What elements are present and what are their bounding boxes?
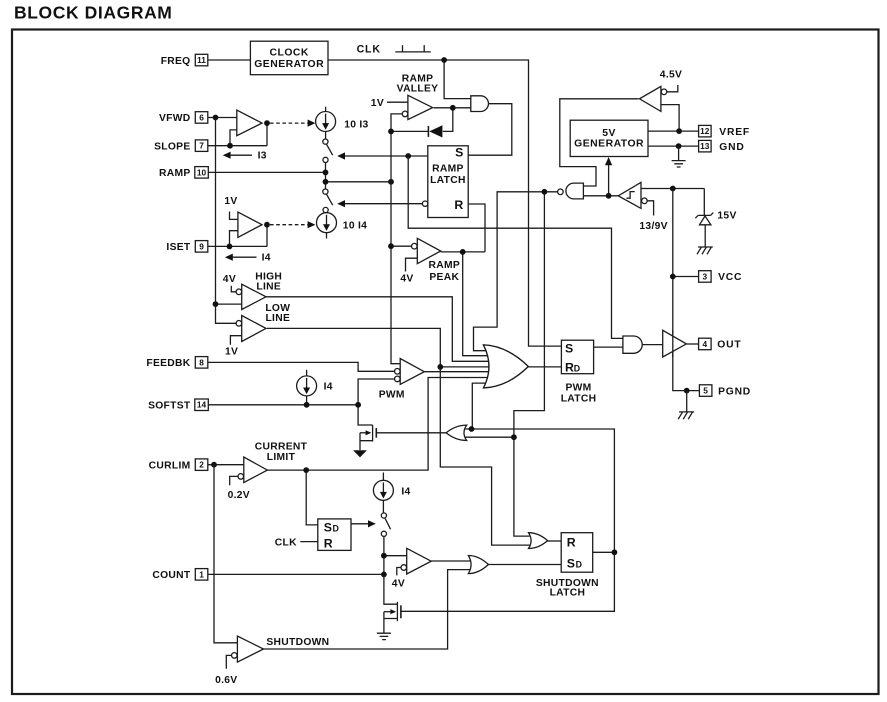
wire PWM latch output to AND U3 <box>594 346 625 348</box>
box 5V generator <box>570 120 648 156</box>
switch S1 lower contact <box>323 157 328 162</box>
svg-text:3: 3 <box>702 271 707 281</box>
comparator HIGH LINE <box>242 284 266 309</box>
svg-text:D: D <box>333 524 339 534</box>
node NAND output junction <box>542 189 548 195</box>
svg-text:14: 14 <box>197 400 207 410</box>
wire clock generator output CLK net <box>328 60 561 346</box>
node PGND junction <box>684 388 690 394</box>
wire OR-left top input row junction to x614 rail <box>400 429 614 611</box>
wire 4.5V lower input to VREF <box>661 105 679 132</box>
wire CLK branch down to AND gate U2 top input <box>444 60 472 99</box>
OR gate big (7 inputs) <box>484 345 529 388</box>
pin box 14 SOFTST <box>195 399 209 411</box>
node VCC junction <box>670 274 676 280</box>
current source I4 upper <box>306 370 308 405</box>
latch PWM LATCH <box>561 340 593 374</box>
comparator 4.5V (points left) <box>640 86 661 111</box>
svg-text:CURRENT: CURRENT <box>255 442 308 453</box>
wire VCC rail down to PGND row <box>673 189 700 391</box>
node CURLIM output junction <box>303 467 309 473</box>
node COUNT junction <box>381 572 387 578</box>
box SD/R (one-shot) <box>318 519 351 551</box>
arrow I4 pointing left <box>228 256 256 258</box>
wire x408 rail to output AND gate U3 top input <box>408 156 624 338</box>
wire R-OR gate output to shutdown latch R <box>546 540 561 542</box>
pin box 8 FEEDBK <box>195 357 208 369</box>
wire 13/9V top input row to VCC rail and zener <box>641 188 704 190</box>
switch S3 blade <box>385 518 391 529</box>
node ISET feedback junction <box>227 244 233 250</box>
pin box 5 PGND <box>699 385 712 397</box>
comparator 13/9V (points left, hysteresis) <box>618 182 641 208</box>
pin box 13 GND <box>699 140 712 152</box>
node VFWD junction <box>213 115 219 121</box>
svg-text:S: S <box>567 556 575 570</box>
svg-text:SHUTDOWN: SHUTDOWN <box>266 637 329 648</box>
pin box 11 FREQ <box>195 54 208 66</box>
diode D1 <box>429 125 442 137</box>
node CLK junction <box>441 57 447 63</box>
wire 1V hook to ISET amp plus input <box>230 212 238 220</box>
wire 4V hook to HIGH LINE bubble <box>231 286 236 292</box>
pin box 3 VCC <box>699 271 712 283</box>
wire AND U2 output to RAMP latch S input <box>468 104 512 156</box>
svg-text:SLOPE: SLOPE <box>154 141 190 152</box>
svg-text:RAMP: RAMP <box>159 168 191 179</box>
wire 1V to RAMP VALLEY plus input <box>387 101 408 103</box>
comparator CURRENT LIMIT <box>244 457 267 483</box>
svg-text:I4: I4 <box>401 486 410 497</box>
svg-text:8: 8 <box>199 357 204 367</box>
wire 4V hook to COUNT comparator bubble <box>397 568 401 576</box>
OR gate big (redraw over stubs) <box>484 345 529 388</box>
current source 10I4 <box>317 213 337 233</box>
wire VFWD pin to amp <box>208 117 237 119</box>
svg-text:VCC: VCC <box>718 272 742 283</box>
node OR-left top input junction <box>469 426 475 432</box>
wire VFWD vertical rail down to LOW LINE <box>216 118 237 324</box>
svg-text:PWM: PWM <box>565 383 591 394</box>
arrow into 5V generator <box>608 162 610 196</box>
wire x544 rail from NAND output down to OR-left and R-OR gates <box>514 192 545 536</box>
wire VCC pin row <box>673 276 699 278</box>
svg-text:1V: 1V <box>371 98 384 109</box>
wire SHUTDOWN comparator output chain to SD-OR <box>264 570 471 649</box>
comparator RAMP PEAK <box>417 238 440 263</box>
svg-text:D: D <box>576 559 582 569</box>
wire OR-left bottom input branch <box>466 436 514 438</box>
node RAMP row2 <box>323 179 329 185</box>
node x391 rail at RAMP row <box>388 179 394 185</box>
svg-text:4V: 4V <box>392 578 405 589</box>
clock generator box <box>250 41 328 74</box>
pin box 9 ISET <box>195 241 208 253</box>
NAND gate U4 (points left, output bubble) <box>566 183 584 199</box>
arrow I3 pointing left <box>226 154 252 156</box>
wire HIGH LINE output to big OR input3 <box>266 297 497 362</box>
wire driver output to OUT pin <box>686 343 698 345</box>
svg-text:ISET: ISET <box>166 242 190 253</box>
svg-text:6: 6 <box>199 112 204 122</box>
pin box 2 CURLIM <box>195 459 208 471</box>
ground PGND (chassis) <box>678 391 694 420</box>
pin box 6 VFWD <box>195 112 208 124</box>
wire 1V hook to LOW LINE plus input <box>230 336 241 345</box>
pin box 10 RAMP <box>195 167 209 179</box>
wire VCC rail over driver <box>672 330 674 357</box>
svg-text:R: R <box>567 535 576 549</box>
wire 4V comparator output to SD-OR gate <box>431 560 470 562</box>
wire LOW LINE output chain to big OR input4 and shutdown R gate <box>267 328 530 545</box>
MOSFET Q2 <box>384 602 398 633</box>
wire S2 lower contact to current source 10I4 <box>325 212 327 215</box>
svg-text:5V: 5V <box>602 128 616 139</box>
node OR-left bottom input junction <box>511 434 517 440</box>
wire RAMP PEAK output down to big OR input2 <box>463 252 497 356</box>
wire 0.6V hook to SHUTDOWN bubble <box>226 655 231 668</box>
svg-text:FEEDBK: FEEDBK <box>146 358 190 369</box>
wire dashed VFWD amp to current source 10I3 <box>270 122 311 124</box>
wire AND U3 output to driver <box>642 344 663 346</box>
pin box 4 OUT <box>699 338 712 350</box>
OR gate left-pointing (Q1 gate driver) <box>446 425 467 440</box>
node VFWD amp output <box>264 120 270 126</box>
svg-text:OUT: OUT <box>717 340 741 351</box>
wire big OR input7 stub down to junction <box>472 383 497 429</box>
svg-text:RAMP: RAMP <box>429 260 461 271</box>
svg-text:13/9V: 13/9V <box>639 221 667 232</box>
wire CURLIM output chain up to big OR input6 <box>267 378 497 471</box>
svg-text:PGND: PGND <box>718 386 751 397</box>
svg-text:I4: I4 <box>262 253 271 264</box>
node RAMP PEAK output <box>460 249 466 255</box>
wire big OR output to PWM latch RD <box>528 366 561 368</box>
wire SOFTST node down to MOSFET Q1 drain <box>358 405 373 425</box>
svg-text:7: 7 <box>199 141 204 151</box>
wire x391 rail (RAMP valley bubble down to PWM comparator) <box>391 114 402 364</box>
svg-text:5: 5 <box>703 386 708 396</box>
svg-text:FREQ: FREQ <box>161 56 191 67</box>
wire S1 lower contact to RAMP node <box>325 163 327 190</box>
node VFWD rail at HIGH LINE <box>213 301 219 307</box>
svg-text:COUNT: COUNT <box>152 570 191 581</box>
node CURLIM pin junction <box>211 462 217 468</box>
AND gate U2 (clock / ramp valley) <box>471 96 489 112</box>
svg-text:CLOCK: CLOCK <box>269 47 308 58</box>
svg-text:S: S <box>455 146 463 160</box>
svg-text:RAMP: RAMP <box>432 164 464 175</box>
svg-text:4: 4 <box>702 339 707 349</box>
wire FEEDBK pin to PWM comparator bubble1 <box>207 362 394 371</box>
node I4 at SOFTST row <box>304 402 310 408</box>
node VREF junction <box>676 128 682 134</box>
comparator SHUTDOWN <box>237 636 263 662</box>
node ISET amp output <box>264 222 270 228</box>
OR gate R (shutdown latch reset) <box>529 533 548 549</box>
wire 0.2V hook to CURLIM bubble <box>230 476 238 485</box>
svg-text:1V: 1V <box>224 196 237 207</box>
svg-text:CLK: CLK <box>357 44 381 56</box>
wire 4V comparator plus input row <box>384 555 408 557</box>
wire GND row <box>648 145 699 147</box>
op-amp VFWD buffer <box>237 110 262 136</box>
switch S2 lower contact <box>323 207 328 212</box>
svg-text:GND: GND <box>719 142 744 153</box>
clock waveform symbol <box>395 45 431 52</box>
svg-text:13: 13 <box>700 141 710 151</box>
node comparator output / diode branch <box>450 105 456 111</box>
svg-text:LATCH: LATCH <box>561 394 597 405</box>
svg-text:0.2V: 0.2V <box>228 490 250 501</box>
pin box 1 COUNT <box>195 569 208 581</box>
switch S3 upper contact <box>381 513 386 518</box>
svg-text:PEAK: PEAK <box>429 272 459 283</box>
latch RAMP LATCH <box>428 146 468 218</box>
svg-text:D: D <box>574 363 580 373</box>
comparator 4V (count) <box>407 548 432 574</box>
svg-text:CURLIM: CURLIM <box>149 460 191 471</box>
wire RAMP PEAK bubble to x391 rail <box>391 245 411 247</box>
wire 4.5V bubble reference hook <box>667 85 678 92</box>
svg-text:R: R <box>324 536 333 550</box>
switch S2 blade <box>326 194 332 205</box>
arrow SD box to switch S3 <box>351 523 371 525</box>
wire COUNT pin row <box>208 573 384 575</box>
svg-text:10 I3: 10 I3 <box>344 119 368 130</box>
switch S1 upper contact <box>323 139 328 144</box>
wire RAMP pin row <box>209 171 326 173</box>
wire NAND bottom input row from 13/9V comparator <box>583 195 618 197</box>
svg-text:4.5V: 4.5V <box>660 70 682 81</box>
svg-text:LATCH: LATCH <box>550 588 586 599</box>
svg-text:S: S <box>565 341 573 355</box>
switch S3 lower contact <box>381 531 386 536</box>
node 13/9V output junction <box>606 193 612 199</box>
wire RAMP latch left S row with arrow to switch S1 <box>345 155 428 157</box>
svg-text:VREF: VREF <box>719 127 750 138</box>
node SOFTST main junction <box>355 402 361 408</box>
svg-text:9: 9 <box>199 241 204 251</box>
wire CURLIM branch down to SD box <box>306 470 318 525</box>
svg-text:PWM: PWM <box>379 389 405 400</box>
node x391 rail at diode row <box>388 129 394 135</box>
svg-text:R: R <box>565 360 574 374</box>
wire VREF row <box>648 130 699 132</box>
svg-text:10 I4: 10 I4 <box>343 220 367 231</box>
ground Q1 source (triangle) <box>353 450 367 457</box>
node VCC rail top <box>670 186 676 192</box>
wire SOFTST pin row <box>207 404 358 406</box>
wire RAMP node to x391 rail <box>326 181 392 183</box>
wire ISET pin row and amp feedback <box>207 225 267 247</box>
svg-text:S: S <box>324 521 332 535</box>
comparator LOW LINE <box>242 316 266 342</box>
wire big OR input4 stub <box>440 366 497 368</box>
op-amp ISET buffer <box>238 212 262 237</box>
wire 13/9V bubble hook <box>647 201 653 216</box>
node 4V comparator input junction <box>381 553 387 559</box>
switch S2 upper contact <box>323 189 328 194</box>
AND gate U3 (output) <box>623 336 642 353</box>
svg-text:VFWD: VFWD <box>159 113 191 124</box>
svg-text:LATCH: LATCH <box>430 175 466 186</box>
wire 4V hook to RAMP PEAK plus input <box>406 258 418 271</box>
current source 10I3 <box>325 107 327 139</box>
wire SOFTST node up to PWM comparator bubble2 <box>358 379 395 405</box>
node LOW LINE line at OR input4 <box>437 364 443 370</box>
svg-text:BLOCK DIAGRAM: BLOCK DIAGRAM <box>14 3 172 23</box>
comparator PWM <box>400 359 424 385</box>
pin box 12 VREF <box>699 125 712 136</box>
svg-text:GENERATOR: GENERATOR <box>254 59 324 70</box>
svg-text:LINE: LINE <box>265 313 290 324</box>
node x391 rail at RAMP PEAK <box>388 243 394 249</box>
OR gate SD (shutdown latch set) <box>468 556 488 574</box>
comparator RAMP VALLEY <box>408 95 433 119</box>
ground GND pin (3-bar) <box>672 146 686 167</box>
svg-text:CLK: CLK <box>275 538 297 549</box>
wire SD-OR gate output to shutdown latch SD <box>487 564 561 566</box>
svg-text:LINE: LINE <box>256 282 281 293</box>
zener diode 15V <box>695 189 713 219</box>
node S-left row junction <box>405 153 411 159</box>
node shutdown latch output <box>612 549 618 555</box>
wire diode branch <box>391 108 453 132</box>
wire shutdown latch output row <box>593 551 615 553</box>
wire SLOPE pin row and amp feedback <box>208 123 267 146</box>
wire FREQ pin to clock generator <box>208 59 251 61</box>
svg-text:VALLEY: VALLEY <box>397 84 439 95</box>
svg-text:12: 12 <box>700 126 710 136</box>
wire Q1 gate row from OR-left gate <box>376 432 447 434</box>
svg-text:11: 11 <box>197 55 206 65</box>
wire CURLIM rail down to SHUTDOWN comparator <box>214 465 237 643</box>
wire CURLIM pin row <box>208 464 244 466</box>
svg-text:R: R <box>454 198 463 212</box>
svg-text:10: 10 <box>197 167 207 177</box>
wire RAMP PEAK output row <box>441 251 485 253</box>
driver buffer OUT <box>663 330 687 357</box>
svg-text:1V: 1V <box>225 347 238 358</box>
svg-text:4V: 4V <box>223 274 236 285</box>
wire RAMP VALLEY output row to AND U2 <box>434 107 472 109</box>
svg-text:GENERATOR: GENERATOR <box>574 139 644 150</box>
wire RAMP latch R loop from RAMP PEAK <box>468 204 485 252</box>
svg-text:SOFTST: SOFTST <box>148 401 191 412</box>
svg-text:4V: 4V <box>400 273 413 284</box>
wire 4.5V comparator output Z-path to NAND top input <box>560 99 639 186</box>
svg-text:15V: 15V <box>717 211 736 222</box>
node RAMP row1 <box>323 170 329 176</box>
svg-text:I3: I3 <box>258 151 267 162</box>
wire PWM comparator output to big OR input5 <box>424 371 497 373</box>
MOSFET Q1 <box>360 425 373 450</box>
svg-text:LIMIT: LIMIT <box>267 452 296 463</box>
node SLOPE feedback junction <box>227 143 233 149</box>
wire dashed ISET amp to current source 10I4 <box>270 224 311 226</box>
switch S1 blade <box>326 144 332 155</box>
wire HIGH LINE plus input row <box>216 303 242 305</box>
svg-text:2: 2 <box>199 460 204 470</box>
svg-text:I4: I4 <box>324 381 333 392</box>
wire NAND output net (to x497 and x544 rails) <box>474 192 558 351</box>
wire COUNT rail down to MOSFET Q2 <box>384 536 398 604</box>
wire CLK to SD box R input <box>300 541 318 543</box>
ground zener (chassis) <box>697 247 713 254</box>
latch SHUTDOWN LATCH <box>561 533 593 573</box>
node GND junction <box>676 143 682 149</box>
current source I4 lower <box>382 473 384 513</box>
svg-text:0.6V: 0.6V <box>215 675 237 686</box>
svg-text:1: 1 <box>199 569 204 579</box>
ground Q2 source (3-bar) <box>377 633 391 639</box>
pin box 7 SLOPE <box>195 140 208 152</box>
wire RAMP latch left R row with arrow to switch S2 <box>345 203 423 205</box>
